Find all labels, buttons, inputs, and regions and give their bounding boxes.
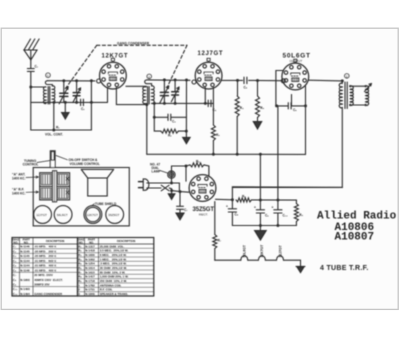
svg-text:R₈: R₈ <box>242 195 246 199</box>
resistor R9 <box>294 200 303 225</box>
chassis tube 12J7GT <box>34 206 52 224</box>
resistor R2 <box>154 117 188 137</box>
wire grid line V2 <box>147 78 190 81</box>
variable capacitor C12 <box>160 80 169 104</box>
svg-text:N-1144: N-1144 <box>20 264 30 268</box>
svg-text:R₉: R₉ <box>299 213 303 217</box>
pin grid V2 <box>192 80 196 84</box>
resistor R7 <box>213 202 222 261</box>
tube V3 50L6GT <box>282 53 310 90</box>
svg-text:N-1850: N-1850 <box>20 278 30 282</box>
wire cathode pins V1 <box>91 88 148 107</box>
speaker voice coil <box>349 84 372 107</box>
wire grid leak drop V2 <box>185 80 187 131</box>
svg-text:N-1145: N-1145 <box>20 249 30 253</box>
svg-text:12K7GT: 12K7GT <box>102 53 128 59</box>
svg-text:12K7GT: 12K7GT <box>260 244 264 258</box>
capacitor C10 <box>272 200 289 226</box>
svg-text:.01 MFD. 400 V.: .01 MFD. 400 V. <box>34 268 57 272</box>
resistor R3 <box>211 103 220 154</box>
svg-text:CONTROL: CONTROL <box>23 162 39 166</box>
svg-text:C₆: C₆ <box>293 108 297 112</box>
rf coil 2 core <box>148 87 150 105</box>
antenna coil 1 secondary <box>52 86 55 103</box>
wire ac lower to V4 <box>170 189 189 193</box>
parts table capacitors <box>12 238 78 297</box>
capacitor C5 <box>244 77 248 89</box>
wire B+ screen rail <box>147 153 306 156</box>
output transformer primary <box>339 81 342 108</box>
wire ground line stage 1 <box>31 101 92 104</box>
ground R5 <box>253 122 261 130</box>
ground stage 1 <box>62 102 69 119</box>
svg-text:12K7GT: 12K7GT <box>87 213 98 217</box>
capacitor C3 <box>153 103 187 123</box>
svg-text:R₄: R₄ <box>240 106 244 110</box>
svg-text:VOLUME CONTROL: VOLUME CONTROL <box>70 162 100 166</box>
svg-text:C₅: C₅ <box>244 86 248 90</box>
node 3 (speaker transformer id) <box>345 74 350 79</box>
gang condenser sketch <box>40 171 70 202</box>
antenna coil 1 core <box>48 87 50 105</box>
svg-text:N-1146: N-1146 <box>20 245 30 249</box>
wire cathode V1 <box>90 81 93 130</box>
svg-text:Allied Radio: Allied Radio <box>317 211 397 223</box>
label padder X ant <box>12 173 39 181</box>
output transformer core <box>345 82 347 109</box>
wire cathode line stage 2 <box>152 102 214 105</box>
svg-text:SPEAKER & TRANS.: SPEAKER & TRANS. <box>100 292 129 296</box>
svg-text:C₃: C₃ <box>172 119 176 123</box>
variable capacitor C11 <box>59 81 68 104</box>
wire coil bottom to R1 rail <box>52 102 55 131</box>
svg-text:VOL. CONT.: VOL. CONT. <box>45 133 63 137</box>
rf coil 2 secondary <box>152 86 155 104</box>
svg-text:12J7GT: 12J7GT <box>278 244 282 257</box>
svg-text:12J7GT: 12J7GT <box>36 213 47 217</box>
svg-text:4 TUBE T.R.F.: 4 TUBE T.R.F. <box>320 265 369 272</box>
svg-text:DESCRIPTION: DESCRIPTION <box>46 239 64 243</box>
wire heater pin V4 <box>185 166 187 181</box>
wire OPT primary return <box>232 108 342 188</box>
switch on-off <box>147 185 172 191</box>
ground C7 <box>176 213 184 220</box>
wire coil 2 primary to B+ rail <box>145 104 148 155</box>
antenna <box>24 39 39 60</box>
wire grid line V1 <box>48 79 95 82</box>
node 2 (coil 2 id) <box>147 74 152 79</box>
svg-text:R₂: R₂ <box>168 133 172 137</box>
chassis tube 35Z5GT <box>106 206 124 224</box>
chassis tube 50L6GT <box>54 206 72 224</box>
label dial lamp <box>150 162 168 173</box>
ac plug <box>139 179 149 190</box>
capacitor C2 <box>81 99 86 111</box>
wire plate line V3 <box>309 79 344 82</box>
wire grid return drop (to C10) <box>275 104 278 200</box>
svg-text:C₄: C₄ <box>13 259 17 263</box>
capacitor C1 <box>27 60 38 87</box>
svg-text:.05 MFD. 200 V.: .05 MFD. 200 V. <box>34 254 57 258</box>
tuning shaft <box>50 151 55 168</box>
ground filter main <box>255 226 267 241</box>
svg-text:C₁₀: C₁₀ <box>283 213 289 217</box>
gang condenser dashed link <box>65 45 187 88</box>
svg-text:RECT.: RECT. <box>199 213 208 217</box>
wire C9 feed drop <box>259 154 261 200</box>
node 1 (coil 1 id) <box>46 73 51 78</box>
svg-text:R₃: R₃ <box>216 133 220 137</box>
tube V4 35Z5GT <box>189 175 216 217</box>
speaker sketch <box>81 169 114 196</box>
svg-text:N-1145: N-1145 <box>20 254 30 258</box>
svg-text:GANG CONDENSER: GANG CONDENSER <box>117 41 150 45</box>
svg-text:OUTPUT: OUTPUT <box>290 59 303 63</box>
svg-text:C₂: C₂ <box>81 107 85 111</box>
wire antenna to coil L1 <box>29 86 43 131</box>
parts table resistors <box>78 238 154 297</box>
svg-text:+: + <box>254 205 256 209</box>
svg-text:DESCRIPTION: DESCRIPTION <box>117 239 135 243</box>
svg-text:A10807: A10807 <box>335 232 375 244</box>
svg-text:20MFD 25V: 20MFD 25V <box>34 283 49 287</box>
svg-text:1400 KC.: 1400 KC. <box>12 191 26 195</box>
svg-text:N-1146: N-1146 <box>20 268 30 272</box>
pin grid V1 <box>97 79 101 83</box>
tube V1 12K7GT <box>100 53 128 89</box>
label on-off switch volume control <box>56 156 100 166</box>
wire rectifier output V4 <box>216 198 234 201</box>
svg-text:N-1144: N-1144 <box>20 259 30 263</box>
svg-text:+: + <box>272 205 274 209</box>
capacitor C4 <box>208 100 217 112</box>
wire cathode drop V3 to rail <box>292 86 308 154</box>
wire volume control rail R1 <box>31 125 92 136</box>
ground heater string <box>296 266 305 272</box>
svg-text:N-1493: N-1493 <box>20 287 30 291</box>
grid hank loop coil 1 <box>45 81 52 86</box>
wire filter bottom rail <box>232 224 296 227</box>
label tube shield <box>92 202 117 206</box>
svg-text:NO.: NO. <box>24 240 29 244</box>
capacitor C7 <box>177 192 189 213</box>
output transformer secondary <box>350 86 353 106</box>
trimmer capacitor stage 2 <box>171 80 179 104</box>
svg-text:C₁₁: C₁₁ <box>13 287 18 291</box>
label tuning control <box>23 159 50 167</box>
svg-text:R₆: R₆ <box>196 160 200 164</box>
wire plate V1 to coil 2 <box>126 85 146 88</box>
svg-text:GANG CONDENSER: GANG CONDENSER <box>34 292 63 296</box>
svg-text:C₉: C₉ <box>265 213 269 217</box>
capacitor C9 <box>254 200 269 226</box>
svg-text:R₅: R₅ <box>260 106 264 110</box>
trimmer capacitor stage 1 <box>73 81 81 103</box>
wire heater string <box>215 256 301 267</box>
svg-text:50L6GT: 50L6GT <box>57 213 68 217</box>
resistor R5 <box>256 81 265 122</box>
wire plate line V2 to V3 <box>222 79 282 82</box>
dial lamp no47 <box>168 171 175 178</box>
capacitor C6 <box>277 103 306 112</box>
resistor R4 <box>235 80 244 155</box>
svg-text:C₁₂: C₁₂ <box>13 292 18 296</box>
wire B+ top rail corner <box>232 187 342 200</box>
svg-text:20 MFD. 150V: 20 MFD. 150V <box>34 273 53 277</box>
svg-text:C₈: C₈ <box>235 212 239 216</box>
svg-text:.01 MFD. 400 V.: .01 MFD. 400 V. <box>34 245 57 249</box>
rf coil 2 primary <box>143 87 146 104</box>
svg-text:12J7GT: 12J7GT <box>198 51 223 57</box>
antenna coil 1 primary <box>43 87 46 104</box>
svg-text:35Z5GT: 35Z5GT <box>108 213 119 217</box>
svg-text:40MFD 150V ELECT.: 40MFD 150V ELECT. <box>34 278 63 282</box>
chassis box <box>33 168 129 226</box>
svg-text:+: + <box>226 204 228 208</box>
svg-text:N-1840: N-1840 <box>85 292 95 296</box>
chassis tube 12K7GT shielded <box>84 206 102 224</box>
ground ac <box>168 191 175 200</box>
resistor R6 <box>172 160 209 179</box>
wire ac upper <box>147 178 180 192</box>
svg-text:.05 MFD. 200 V.: .05 MFD. 200 V. <box>34 249 57 253</box>
svg-text:50L6GT: 50L6GT <box>243 244 247 257</box>
label padder X rf <box>12 188 39 196</box>
wire cathode pins V2 <box>205 88 213 104</box>
capacitor C8 <box>226 200 239 226</box>
wire grid corner V3 <box>276 71 284 106</box>
grid hank loop coil 2 <box>145 80 152 86</box>
svg-text:.01 MFD. 600 V.: .01 MFD. 600 V. <box>34 259 57 263</box>
pin grid V3 <box>281 79 285 83</box>
ground grid leak <box>183 131 190 144</box>
svg-text:1400 KC.: 1400 KC. <box>12 176 26 180</box>
svg-text:.01 MFD. 400 V.: .01 MFD. 400 V. <box>34 264 57 268</box>
svg-text:NO.: NO. <box>13 240 18 244</box>
svg-text:N-1494: N-1494 <box>20 292 30 296</box>
resistor R8 <box>236 195 296 202</box>
tube V2 12J7GT <box>195 51 223 89</box>
